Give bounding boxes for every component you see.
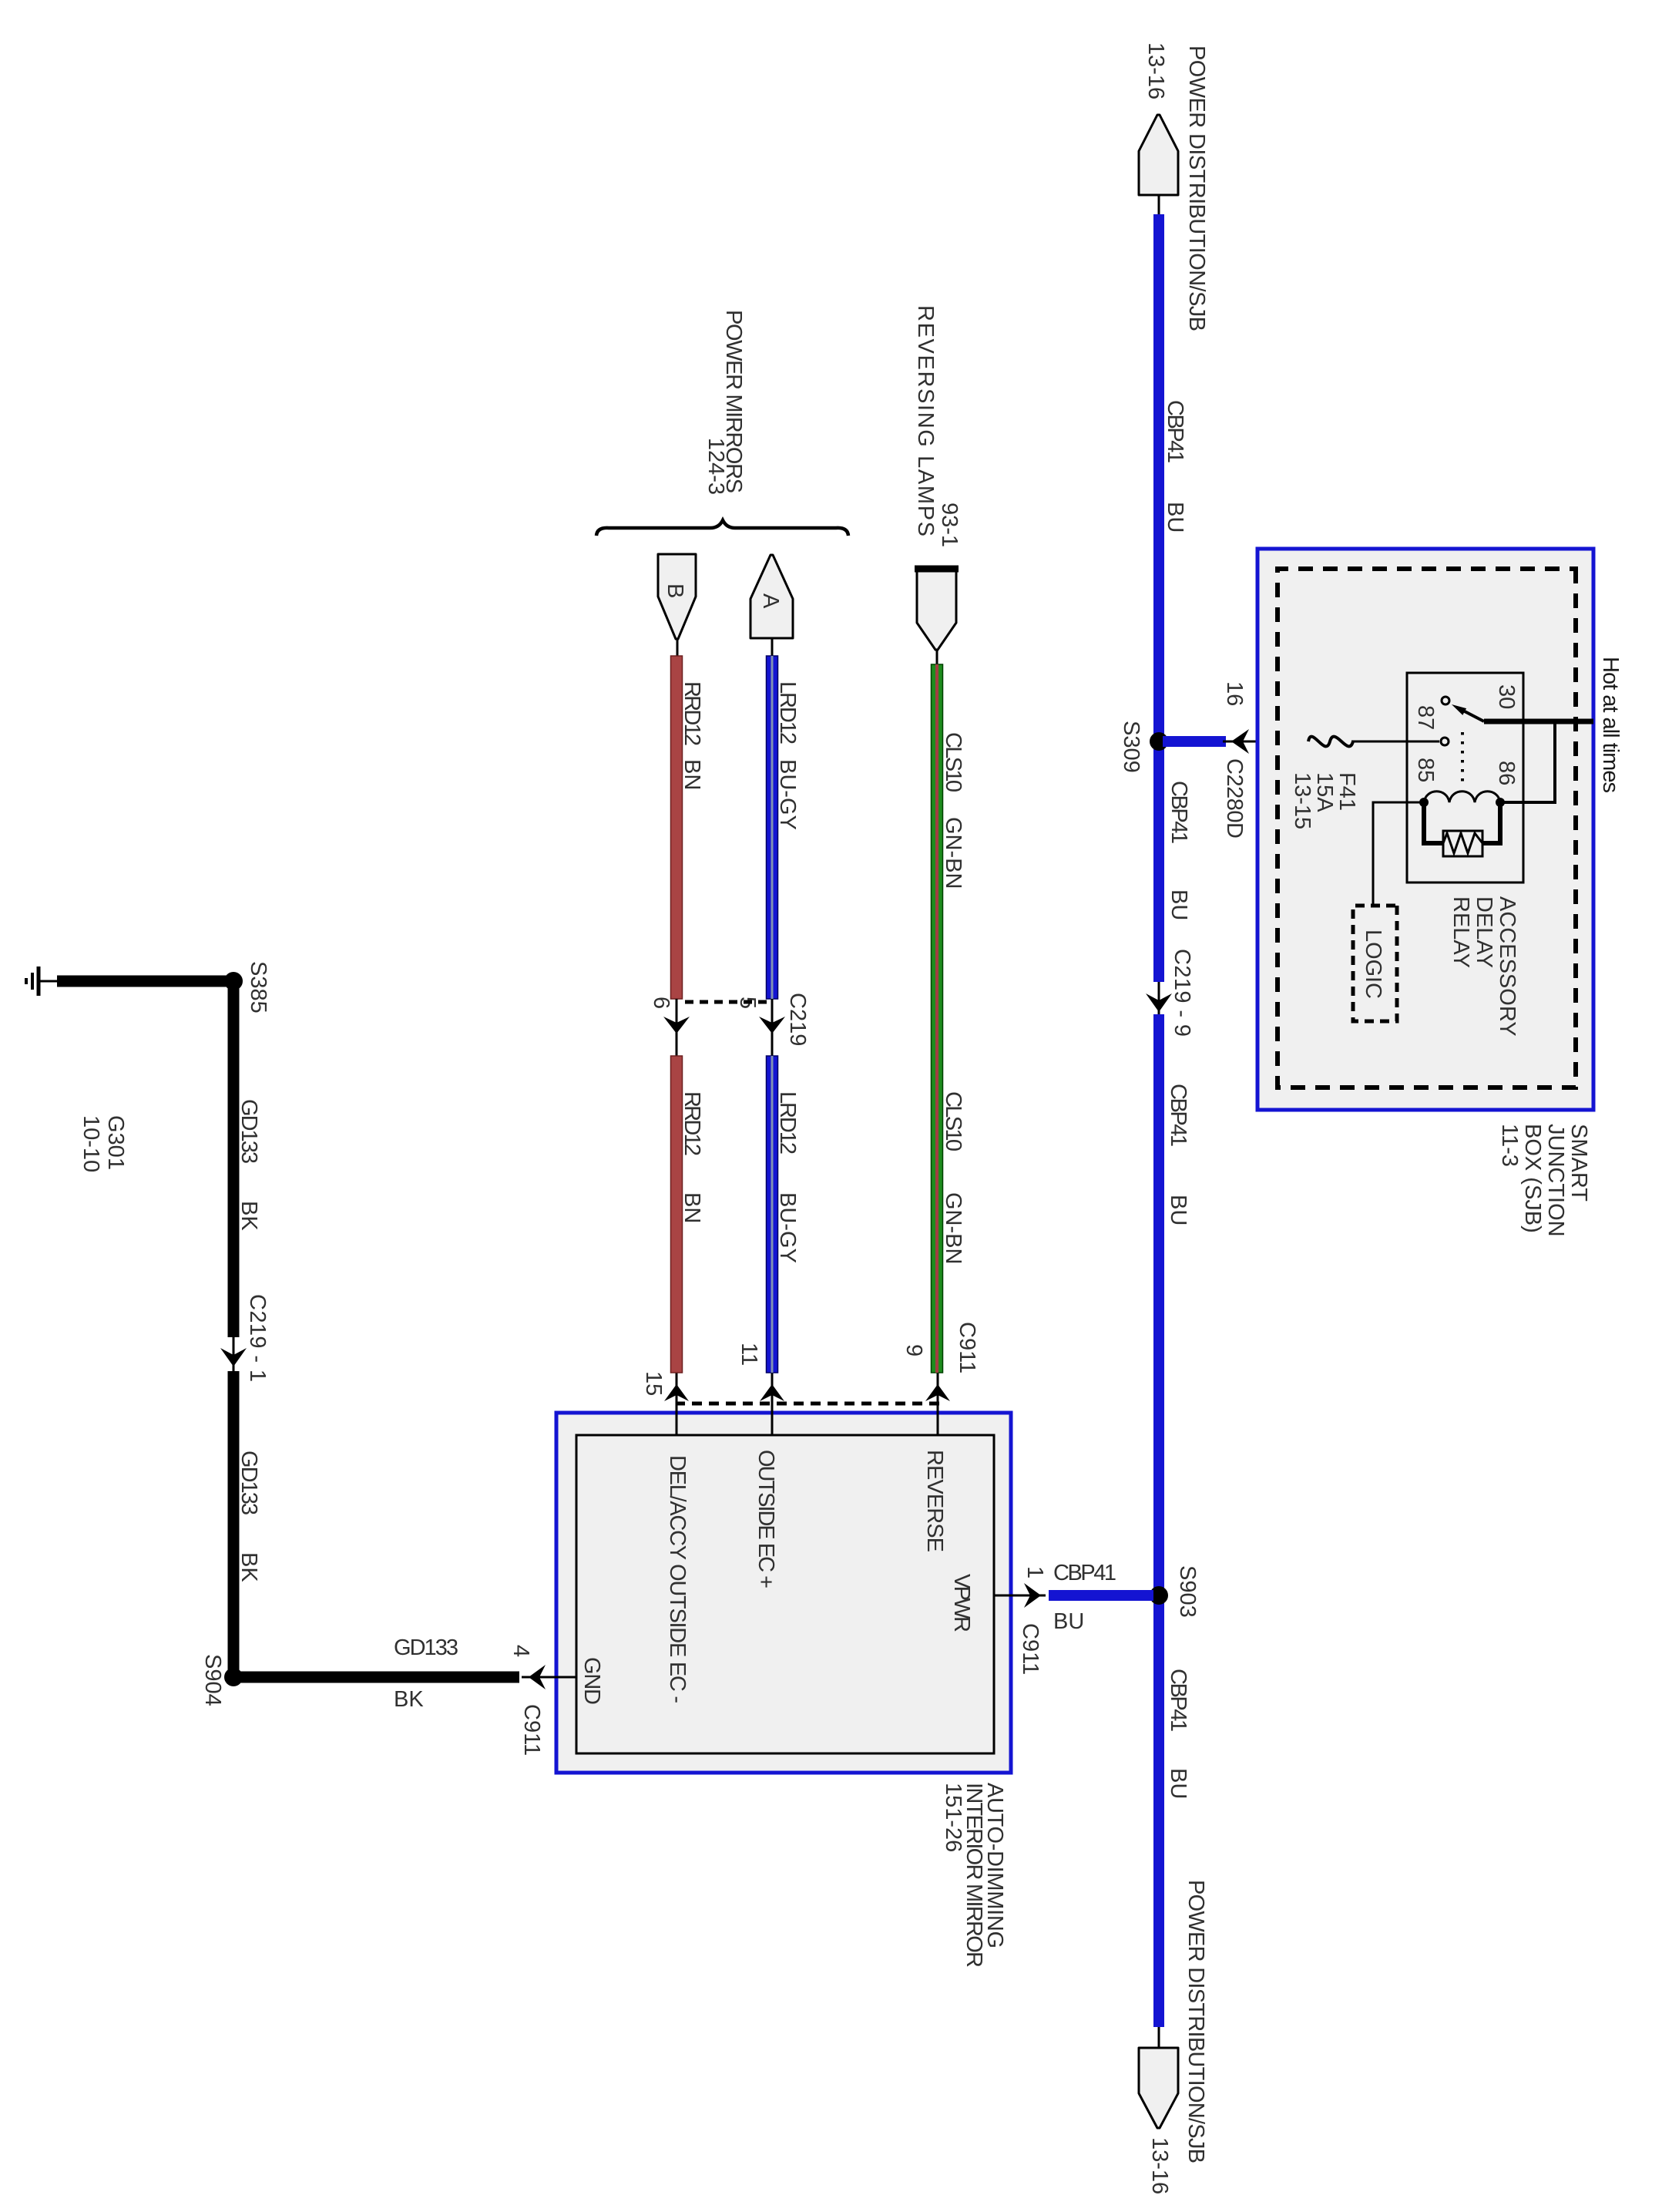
svg-text:B: B [663,583,687,598]
svg-text:GN-BN: GN-BN [941,817,965,889]
connector: POWER DISTRIBUTION/SJB (top, off-page arrow) [1139,115,1178,195]
pin lead: OUTSIDE EC + [771,1373,774,1435]
svg-text:REVERSING LAMPS: REVERSING LAMPS [913,305,938,536]
svg-text:C911: C911 [519,1704,544,1756]
wire: coil to LOGIC [1373,802,1424,906]
svg-text:C2280D: C2280D [1222,758,1247,839]
pin lead: REVERSE [937,1373,939,1435]
svg-text:CBP41: CBP41 [1163,400,1187,463]
wire: ground drop from S385 [57,976,233,987]
svg-text:C219 - 1: C219 - 1 [245,1294,270,1382]
connector A (power mirrors) [750,555,793,638]
wire: CBP41 BU segment 1 (connector to C219-9) [1153,214,1164,982]
dashed connector line C911 across pins [676,1402,939,1406]
svg-text:A: A [758,593,783,609]
svg-text:BN: BN [680,1192,704,1223]
svg-text:13-15: 13-15 [1290,772,1314,829]
svg-text:BU-GY: BU-GY [775,759,800,830]
node S385 [224,972,243,990]
svg-text:LRD12: LRD12 [775,1091,800,1155]
svg-text:DEL/ACCY OUTSIDE EC -: DEL/ACCY OUTSIDE EC - [665,1455,690,1703]
relay: ACCESSORY DELAY RELAY box [1407,673,1523,882]
relay coil [1424,792,1500,802]
relay pin 87 contact circle [1441,738,1449,745]
ground symbol G301 [37,966,41,996]
svg-text:13-16: 13-16 [1143,42,1168,99]
svg-text:Hot at all times: Hot at all times [1598,657,1623,793]
svg-text:S903: S903 [1175,1565,1200,1618]
svg-text:151-26: 151-26 [941,1783,965,1852]
wire: GD133 BK from GND to S904 [233,1672,519,1683]
wire: GD133 BK C219-1 to S904 [228,1371,240,1677]
svg-text:BU: BU [1166,1768,1190,1799]
svg-text:CLS10: CLS10 [941,732,965,792]
svg-text:OUTSIDE EC +: OUTSIDE EC + [754,1450,778,1588]
relay switch blade from feed to pin 30 [1462,710,1484,721]
svg-text:9: 9 [902,1344,926,1356]
svg-text:16: 16 [1222,681,1247,706]
svg-text:ACCESSORY: ACCESSORY [1495,896,1519,1037]
svg-text:11: 11 [737,1343,761,1366]
svg-text:BN: BN [680,759,704,790]
svg-text:13-16: 13-16 [1147,2137,1172,2194]
svg-text:BU: BU [1167,889,1191,920]
svg-text:S309: S309 [1119,721,1143,773]
svg-text:CLS10: CLS10 [941,1091,965,1151]
svg-text:11-3: 11-3 [1497,1124,1522,1167]
svg-text:BU: BU [1163,502,1187,533]
svg-text:G301: G301 [103,1115,128,1170]
svg-text:S385: S385 [246,961,270,1014]
wire: CBP41 BU stub S903 to VPWR [1049,1590,1153,1601]
svg-text:6: 6 [649,997,673,1009]
box: AUTO-DIMMING INTERIOR MIRROR [556,1413,1011,1773]
svg-text:JUNCTION: JUNCTION [1543,1124,1568,1237]
svg-text:POWER DISTRIBUTION/SJB: POWER DISTRIBUTION/SJB [1184,45,1209,331]
connector C219-1 inline arrow [233,1337,235,1371]
wire: CLS10 GN-BN [932,664,943,1373]
svg-text:BU: BU [1166,1195,1190,1225]
node S309 [1150,732,1168,751]
svg-text:93-1: 93-1 [937,503,962,547]
pin GND: lead down from box [522,1676,576,1679]
svg-text:C219 - 9: C219 - 9 [1170,949,1194,1037]
svg-text:CBP41: CBP41 [1167,781,1191,844]
svg-text:30: 30 [1494,684,1519,709]
svg-text:RRD12: RRD12 [680,681,704,746]
connector B (power mirrors) [658,554,696,639]
wire: CBP41 BU segment 2 (C219-9 to bottom connector) [1153,1014,1164,2027]
brace over POWER MIRRORS connectors [596,520,848,536]
svg-text:RRD12: RRD12 [680,1091,704,1156]
connector C219 pin 5 arrow [771,999,774,1056]
wire: RRD12 BN segment 1 [671,656,683,999]
wire: LRD12 BU-GY segment 1 [767,656,778,999]
svg-text:BK: BK [237,1552,261,1582]
svg-text:C219: C219 [785,993,810,1046]
svg-text:CBP41: CBP41 [1166,1669,1190,1732]
svg-text:BU-GY: BU-GY [775,1192,800,1263]
svg-text:GD133: GD133 [237,1451,261,1515]
wire: GD133 BK S385 to C219-1 [228,981,240,1337]
svg-text:87: 87 [1413,705,1438,730]
mechanical dotted link [1461,732,1464,782]
relay pin 30 contact circle [1442,697,1449,704]
svg-text:SMART: SMART [1566,1124,1591,1202]
resistor across coil [1482,802,1500,843]
svg-text:GD133: GD133 [237,1099,261,1164]
node S903 [1150,1586,1168,1605]
wire: RRD12 BN segment 2 [671,1056,683,1373]
svg-text:10-10: 10-10 [79,1115,103,1172]
svg-text:LOGIC: LOGIC [1361,930,1385,999]
svg-text:REVERSE: REVERSE [922,1450,947,1552]
svg-text:F41: F41 [1335,772,1359,811]
pin VPWR: lead up from box [994,1595,1046,1597]
svg-text:124-3: 124-3 [703,438,728,495]
box: SMART JUNCTION BOX (SJB) [1257,549,1593,1110]
connector: POWER DISTRIBUTION/SJB (bottom, off-page arrow) [1158,2027,1160,2049]
connector arrow C2280D (points down) [1231,729,1249,754]
connector REVERSING LAMPS (flat bar end) [917,571,956,650]
dashed link between C219 arrows [682,1000,767,1004]
svg-text:GD133: GD133 [394,1635,458,1660]
svg-text:1: 1 [1022,1566,1047,1578]
dashed inner boundary of SJB [1278,569,1576,1088]
wire: feed branch to coil pin 86 [1501,721,1555,802]
svg-text:RELAY: RELAY [1449,896,1473,968]
svg-text:S904: S904 [200,1654,225,1706]
inner mirror box [576,1435,994,1753]
svg-text:15A: 15A [1312,772,1337,812]
svg-text:VPWR: VPWR [949,1574,974,1632]
svg-text:C911: C911 [955,1322,979,1373]
svg-text:GN-BN: GN-BN [941,1192,965,1264]
svg-text:CBP41: CBP41 [1166,1084,1190,1147]
svg-text:BK: BK [237,1201,261,1231]
svg-text:15: 15 [641,1371,666,1396]
svg-text:BK: BK [394,1687,424,1712]
box: LOGIC [1353,906,1397,1021]
fuse F41 (s-curve) [1308,737,1353,747]
svg-text:BU: BU [1053,1609,1084,1634]
wire: thick feed from Hot at all times down to relay switch [1484,719,1593,724]
svg-text:GND: GND [579,1657,604,1705]
wire: LRD12 BU-GY segment 2 [767,1056,778,1373]
connector C219 pin 6 arrow [676,999,678,1056]
wire: lead from connector to CBP41 [1158,195,1160,216]
wire: thin lead to fuse [1223,741,1311,743]
svg-text:4: 4 [509,1645,533,1657]
svg-text:CBP41: CBP41 [1053,1561,1116,1585]
arrow into pin 9 [925,1384,950,1401]
branch S309 to SJB: blue stub [1163,736,1226,747]
svg-text:85: 85 [1413,758,1438,782]
connector C219-9 inline arrow [1158,982,1160,1014]
svg-text:POWER DISTRIBUTION/SJB: POWER DISTRIBUTION/SJB [1184,1880,1208,2163]
pin lead: DEL/ACCY OUTSIDE EC - [676,1373,678,1435]
svg-text:BOX (SJB): BOX (SJB) [1520,1124,1545,1233]
svg-text:DELAY: DELAY [1472,896,1496,968]
node S904 [224,1668,243,1686]
svg-text:LRD12: LRD12 [775,681,800,745]
svg-text:86: 86 [1494,761,1519,785]
wire: pin 87 lead down out of relay [1351,741,1439,743]
svg-text:C911: C911 [1018,1623,1043,1675]
